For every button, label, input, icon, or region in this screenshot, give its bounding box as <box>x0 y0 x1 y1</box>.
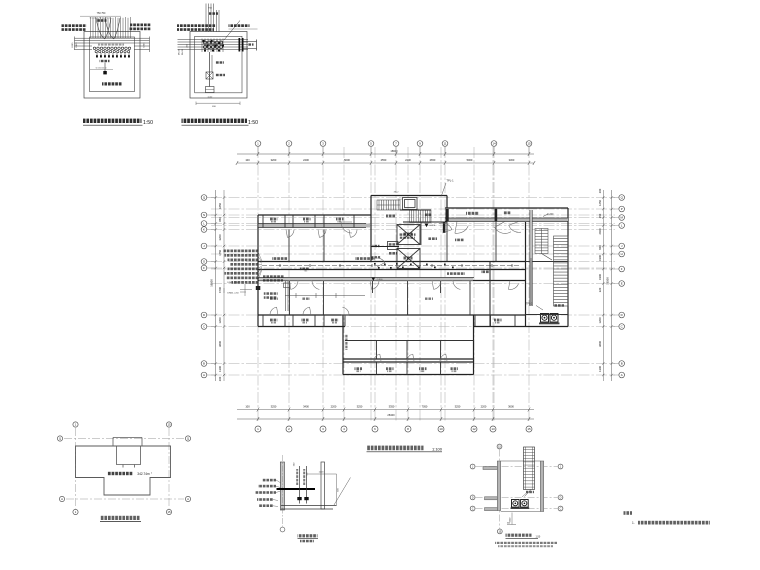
interior partitions <box>263 216 568 375</box>
section detail: sewage outlet connection <box>255 455 351 542</box>
pump detail right wall <box>540 461 543 512</box>
svg-text:TPL-1: TPL-1 <box>446 179 454 183</box>
svg-text:K: K <box>203 228 205 232</box>
bottom wing band inner wall <box>343 358 474 360</box>
detail2 left header line2 <box>177 28 214 31</box>
pump block hatched wall at grid15 <box>530 210 533 306</box>
left outside annotation stack <box>224 250 263 284</box>
svg-text:15: 15 <box>527 142 531 146</box>
svg-text:1300: 1300 <box>598 366 602 372</box>
detail1 sloped pipe runs <box>96 18 120 39</box>
corridor south gray band <box>259 278 473 281</box>
detail1 top dim line <box>80 15 121 17</box>
svg-text:320: 320 <box>598 287 602 292</box>
door arc wing room 2 <box>407 354 414 361</box>
core top wall <box>371 195 447 197</box>
detail2 left header line1 <box>177 24 216 27</box>
section floor slab <box>281 505 337 507</box>
svg-text:DN65 -1.50: DN65 -1.50 <box>227 293 239 295</box>
svg-text:D: D <box>560 496 562 499</box>
svg-text:F: F <box>203 266 205 270</box>
detail1 left header text line1 <box>62 24 87 27</box>
legend text <box>624 511 711 525</box>
left grid circles <box>201 195 207 201</box>
right wing band gray fill <box>446 218 568 221</box>
svg-text:1.: 1. <box>632 521 635 525</box>
pump base strip <box>539 323 560 325</box>
room labels: left wing locker band <box>270 218 278 221</box>
detail1 vertical pipe cluster <box>91 17 131 38</box>
pump detail pumps <box>512 500 529 508</box>
front room label1 <box>373 245 380 247</box>
detail2 right flange <box>239 38 244 52</box>
D row wall in pump block <box>526 314 569 316</box>
corridor elevation marker <box>372 278 376 281</box>
south room label 3 <box>425 298 433 300</box>
detail1 caption text <box>83 119 142 123</box>
legend note line <box>638 521 710 525</box>
detail1 center drop pipe <box>104 63 106 72</box>
pump detail grid dashes <box>476 450 558 529</box>
south rooms top wall <box>258 280 526 282</box>
bottom wing left wall <box>342 315 344 375</box>
svg-text:2200: 2200 <box>331 405 337 409</box>
door arc south room 5 <box>312 281 321 290</box>
lift lobby label <box>428 237 437 240</box>
core stair 1 (horizontal run, top) <box>377 200 400 210</box>
detail1 valve drops <box>97 53 129 58</box>
main plan: axis grid lines <box>211 147 615 422</box>
svg-text:A: A <box>203 373 205 377</box>
pump detail note line2 <box>498 545 553 547</box>
svg-text:200: 200 <box>218 376 222 381</box>
svg-text:3250: 3250 <box>271 405 277 409</box>
svg-text:3250: 3250 <box>357 405 363 409</box>
front room label <box>389 252 397 255</box>
detail1 small label under valves <box>100 60 110 62</box>
svg-text:50 150 150 50: 50 150 150 50 <box>96 67 107 69</box>
right wing top wall P row <box>445 207 568 209</box>
right wing room label <box>455 239 464 242</box>
door arc wing room 3 <box>440 354 447 361</box>
pump detail caption <box>506 534 532 537</box>
svg-text:3400: 3400 <box>303 405 309 409</box>
svg-text:1:50: 1:50 <box>536 535 541 538</box>
pump detail ladder <box>524 447 535 490</box>
svg-text:XB-2: XB-2 <box>394 192 400 194</box>
top dimension strip <box>236 149 535 165</box>
door arc DC band 2 <box>303 307 311 315</box>
right dimension strip <box>598 188 613 381</box>
door arc south room 4 <box>289 281 298 290</box>
pump block bottom wall C row <box>526 326 569 328</box>
door arc locker 3 <box>349 230 357 238</box>
svg-text:DN65 -1.50: DN65 -1.50 <box>227 282 239 284</box>
section thick pipe (outlet) <box>277 488 316 490</box>
detail1 manifold fittings rows <box>93 47 131 53</box>
svg-text:750 750: 750 750 <box>97 12 106 15</box>
svg-text:D: D <box>621 313 623 317</box>
svg-text:7050: 7050 <box>422 405 428 409</box>
south rooms drain pipe <box>285 293 365 298</box>
freight elevator 2 label <box>404 257 413 260</box>
pier below band right wing <box>443 222 446 233</box>
svg-text:2550: 2550 <box>381 158 387 162</box>
svg-text:C: C <box>472 507 474 510</box>
svg-text:1200: 1200 <box>319 471 325 473</box>
svg-text:1850: 1850 <box>218 203 222 209</box>
svg-text:TPL-2: TPL-2 <box>526 303 533 306</box>
left wing bottom wall C row <box>258 326 345 328</box>
vent shaft label <box>425 214 432 217</box>
front room label2 <box>372 256 381 258</box>
detail2 bottom sump box <box>206 87 215 93</box>
door arc south room 1 <box>370 281 379 290</box>
svg-text:28400: 28400 <box>387 413 395 417</box>
svg-text:3800: 3800 <box>598 341 602 347</box>
door arc at pier <box>439 223 452 233</box>
svg-text:16500: 16500 <box>606 277 610 285</box>
detail2 leader diagonal <box>224 21 240 41</box>
power room label <box>466 212 479 215</box>
door arc wing room 1 <box>374 354 381 361</box>
door arc right wing 1 <box>455 221 468 233</box>
pump detail dims <box>511 513 513 525</box>
svg-text:C: C <box>203 325 205 329</box>
detail2 trap valve on lower pipe <box>206 72 213 79</box>
svg-text:1300: 1300 <box>218 366 222 372</box>
meter room beside shafts <box>388 242 399 250</box>
svg-text:B: B <box>203 362 205 366</box>
core elevator 1 (small) <box>403 198 418 210</box>
rotated pipe label along wing left wall <box>345 334 347 350</box>
detail2 top riser pipes <box>206 4 219 33</box>
elevation marker triangle (core) <box>425 224 429 228</box>
door arc DC band 1 <box>270 307 278 315</box>
door arc locker 1 <box>286 230 294 238</box>
detail2 outer box <box>190 32 247 99</box>
svg-text:-5.800: -5.800 <box>429 225 436 227</box>
door arc locker 2 <box>318 230 326 238</box>
svg-text:15: 15 <box>167 510 171 514</box>
door arc left wing top 1 <box>341 222 352 233</box>
bottom wing bottom wall A row <box>343 374 474 376</box>
svg-text:3600: 3600 <box>508 405 514 409</box>
room labels: bottom wing band <box>355 367 363 370</box>
svg-text:3250: 3250 <box>455 405 461 409</box>
svg-text:DN25: DN25 <box>144 43 146 48</box>
detail2 center fitting cluster <box>203 41 222 49</box>
core right wall upper <box>446 196 448 209</box>
svg-text:5000: 5000 <box>467 158 473 162</box>
svg-text:1:100: 1:100 <box>432 446 443 451</box>
svg-text:±0.00: ±0.00 <box>207 97 212 99</box>
detail2 inner box <box>195 36 242 93</box>
detail1 right header text line1 <box>130 24 151 27</box>
left total dim line <box>215 190 217 381</box>
bottom chain dim line <box>237 409 534 411</box>
key plan: fire compartment diagram <box>57 422 190 522</box>
bottom wing right wall <box>473 315 475 375</box>
bottom grid circles <box>255 426 261 432</box>
inner annotation rows near grid1 <box>263 275 284 278</box>
door arc south room 3b <box>508 281 518 290</box>
section caption <box>298 534 318 537</box>
detail1 horizontal pipe runs <box>75 37 150 53</box>
section right wall <box>321 462 325 509</box>
right chain dim line <box>602 190 604 381</box>
top chain dim line <box>237 162 534 164</box>
svg-text:1:50: 1:50 <box>143 120 153 126</box>
svg-text:200: 200 <box>598 188 602 193</box>
right D-C band bottom <box>474 326 526 328</box>
detail2 small top label <box>209 12 218 15</box>
detail2 right header underline <box>229 28 258 30</box>
pump detail note line1 <box>495 542 557 544</box>
room label right D-C band <box>494 319 502 322</box>
main caption text <box>367 446 424 451</box>
pump detail: enlarged pump/stair plan <box>470 444 563 547</box>
svg-text:2400: 2400 <box>303 158 309 162</box>
svg-text:A: A <box>621 373 623 377</box>
left wing top wall N row <box>258 214 371 216</box>
freight elevator shaft 1 with X <box>397 225 420 245</box>
small stair upper (pump block) <box>535 229 548 254</box>
right wing right wall <box>567 208 569 327</box>
pipe note corridor left <box>272 257 288 260</box>
svg-text:1200: 1200 <box>218 317 222 323</box>
svg-text:B: B <box>621 362 623 366</box>
top grid circles <box>255 141 261 147</box>
pipe label rotated 1 <box>296 469 298 485</box>
detail1 right header text line2 <box>129 28 151 31</box>
detail1 caption underline <box>83 124 143 126</box>
pump detail circles <box>497 444 502 449</box>
detail1 inner box <box>90 37 135 92</box>
svg-text:-5.200: -5.200 <box>547 213 554 216</box>
door arc south room 2 <box>432 281 441 290</box>
left wing left wall grid 1 <box>257 215 259 327</box>
svg-text:342.74m: 342.74m <box>137 472 150 476</box>
svg-text:3200: 3200 <box>271 158 277 162</box>
svg-text:10: 10 <box>439 427 443 431</box>
D row wall <box>258 314 526 316</box>
svg-text:-5.800: -5.800 <box>377 279 384 281</box>
detail2 label beside valve <box>215 74 225 76</box>
right total dim line <box>611 190 613 381</box>
svg-text:600: 600 <box>598 245 602 250</box>
room labels: D-C band left <box>270 319 278 322</box>
svg-text:H: H <box>621 252 623 256</box>
svg-text:2200: 2200 <box>481 405 487 409</box>
key plan circles <box>73 422 78 427</box>
bottom total dim line <box>237 418 534 420</box>
core left wall <box>370 196 372 262</box>
mid-right room label <box>481 271 490 274</box>
svg-text:3800: 3800 <box>218 341 222 347</box>
section left wall <box>280 462 284 510</box>
key plan top notch <box>113 438 142 468</box>
door arc DC band 3 <box>341 307 349 315</box>
bottom dimension strip <box>237 405 534 421</box>
svg-text:1:50: 1:50 <box>248 120 258 126</box>
svg-text:12: 12 <box>472 427 476 431</box>
svg-text:1250: 1250 <box>598 200 602 206</box>
pump detail leader and label <box>522 492 528 498</box>
pressure pumps (two) <box>541 314 559 323</box>
stair label <box>526 491 534 493</box>
svg-text:11: 11 <box>443 142 446 146</box>
mid-left room label <box>300 268 309 271</box>
stair arrow line <box>542 254 553 261</box>
svg-text:100: 100 <box>245 158 250 162</box>
svg-text:1200: 1200 <box>598 317 602 323</box>
section dim lines <box>307 473 337 475</box>
section left annotations <box>262 479 276 482</box>
building walls <box>258 196 568 375</box>
detail 1: floor-heating connection diagram (top-left) <box>62 12 154 126</box>
detail1 center small label <box>97 19 107 22</box>
svg-text:D: D <box>472 496 474 499</box>
core wall between stairs <box>400 209 431 211</box>
detail2 flange label <box>248 43 254 45</box>
svg-text:E: E <box>621 282 623 286</box>
svg-text:F: F <box>621 267 623 271</box>
svg-text:250: 250 <box>598 213 602 218</box>
key plan outline <box>76 446 171 495</box>
lobby label <box>386 215 396 218</box>
detail1 left header text line2 <box>62 28 87 31</box>
corridor right annotation <box>447 272 465 275</box>
core stair 2 (second run) <box>410 210 432 223</box>
main stair (pump block, long) <box>554 236 569 306</box>
svg-text:DN100: DN100 <box>182 48 184 55</box>
svg-text:N: N <box>203 213 205 217</box>
pump detail wall stubs <box>483 467 497 470</box>
pump detail stair leader <box>525 490 532 497</box>
svg-text:1750: 1750 <box>218 249 222 255</box>
svg-text:4700: 4700 <box>218 287 222 293</box>
pump block left wall <box>525 222 527 327</box>
detail2 right header line <box>229 24 250 27</box>
svg-text:5000: 5000 <box>344 158 350 162</box>
corridor bottom wall F row <box>258 269 526 271</box>
corridor top wall G row <box>258 261 526 263</box>
section bottom axis circle <box>280 527 285 532</box>
section pipe valves <box>297 497 301 500</box>
locker band bottom line K row <box>258 227 366 229</box>
key plan grid dashes <box>64 428 184 509</box>
key plan caption <box>100 516 140 520</box>
riser cluster near core (dense marks) <box>374 263 454 269</box>
left chain dim line <box>223 190 225 381</box>
door arc right wing 2 <box>509 221 521 232</box>
svg-text:16500: 16500 <box>210 279 214 287</box>
section ground slope line <box>334 478 351 506</box>
door arc front room <box>371 246 399 248</box>
detail2 caption underline <box>182 124 249 126</box>
detail2 label beside pipe <box>215 61 224 63</box>
svg-text:1900: 1900 <box>598 255 602 261</box>
svg-text:15: 15 <box>167 423 171 427</box>
pump label <box>554 304 564 307</box>
detail2 horizontal pipe bundle <box>178 40 249 50</box>
svg-text:14: 14 <box>492 142 496 146</box>
detail1 outer box <box>84 32 140 99</box>
freight elevator 1 label <box>404 233 413 236</box>
shaft1 inner label rows <box>400 233 416 235</box>
svg-text:C: C <box>560 507 562 510</box>
detail1 bottom label (manifold) <box>102 82 122 85</box>
svg-text:13: 13 <box>491 427 495 431</box>
svg-text:DN25: DN25 <box>72 43 74 48</box>
svg-text:15: 15 <box>527 427 531 431</box>
right grid circles <box>619 195 625 201</box>
fire area label <box>107 472 133 475</box>
south room label 2 <box>302 298 310 300</box>
right wing interior partitions <box>495 208 497 262</box>
locker band gray fill (left wing) <box>259 224 370 228</box>
svg-text:2400: 2400 <box>405 158 411 162</box>
pipe label rotated 2 <box>303 469 305 485</box>
svg-text:2650: 2650 <box>430 158 436 162</box>
small pipe fittings row along corridor <box>262 265 520 267</box>
door arc south room 3 <box>453 281 462 290</box>
pipe note above corridor <box>355 257 375 260</box>
freight elevator shaft 2 with X <box>397 249 420 269</box>
svg-text:P: P <box>621 207 623 211</box>
svg-text:D: D <box>203 313 205 317</box>
main caption underline <box>367 451 443 453</box>
svg-text:100: 100 <box>245 405 250 409</box>
plumbing riser stack below corridor <box>284 281 291 311</box>
bottom wing band wall B row <box>343 361 474 363</box>
svg-text:C: C <box>621 325 623 329</box>
door arc front room lower <box>373 258 385 267</box>
svg-text:3350: 3350 <box>389 405 395 409</box>
section vertical pipes <box>300 466 307 504</box>
svg-text:2400: 2400 <box>598 228 602 234</box>
svg-text:A: A <box>61 497 63 501</box>
top total dim line <box>237 153 534 155</box>
svg-text:3300: 3300 <box>509 158 515 162</box>
top grid circle stems <box>258 146 529 154</box>
storage label right <box>503 211 511 214</box>
pump detail left wall (hatched) <box>497 461 500 511</box>
detail 2: sewage connection diagram (top-left, second) <box>177 4 258 126</box>
left dimension strip <box>210 190 226 381</box>
south room label 1 <box>270 298 278 300</box>
detail1 faint row above fittings <box>98 44 124 46</box>
detail2 lower pipe and trap <box>209 52 211 87</box>
detail2 bottom dim <box>196 102 240 104</box>
door arc pump block entry <box>495 221 511 233</box>
detail2 caption text <box>182 119 248 123</box>
pump detail enclosure lines <box>501 460 541 462</box>
svg-text:1900: 1900 <box>598 274 602 280</box>
svg-text:DN20: DN20 <box>76 43 78 48</box>
svg-text:3200: 3200 <box>218 234 222 240</box>
section wall centerline <box>282 455 284 527</box>
legend title <box>624 511 633 515</box>
svg-text:DN100: DN100 <box>179 48 181 55</box>
svg-text:A: A <box>187 497 189 501</box>
svg-text:850: 850 <box>218 217 222 222</box>
